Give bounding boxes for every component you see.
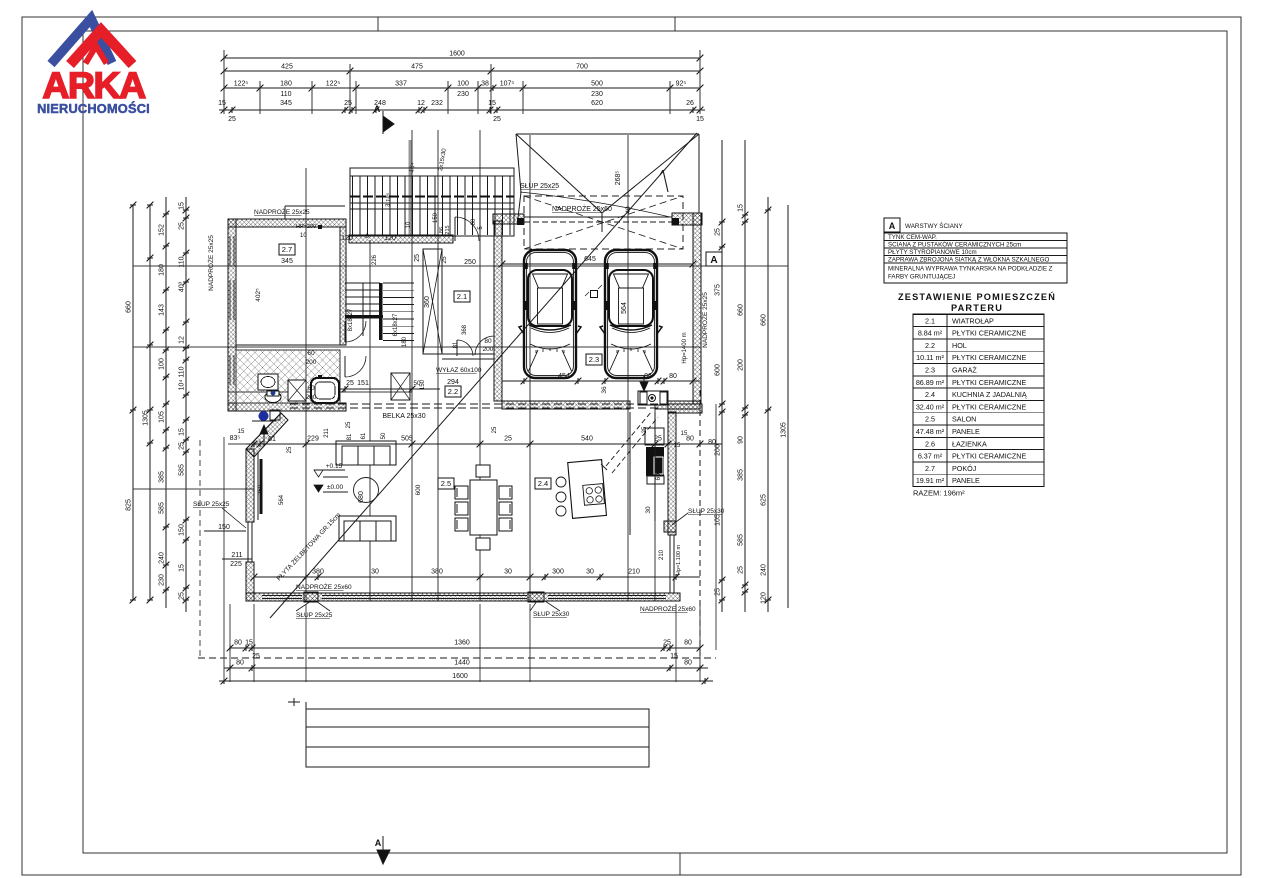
svg-text:15: 15 [696, 116, 704, 123]
svg-text:PANELE: PANELE [952, 476, 980, 485]
svg-text:ZESTAWIENIE POMIESZCZEŃ: ZESTAWIENIE POMIESZCZEŃ [898, 291, 1056, 302]
svg-text:564: 564 [279, 494, 285, 505]
svg-text:25: 25 [287, 446, 293, 453]
svg-text:564: 564 [621, 302, 628, 314]
svg-text:25: 25 [715, 228, 722, 236]
svg-text:180: 180 [280, 81, 292, 88]
svg-text:SALON: SALON [952, 415, 976, 424]
svg-text:SŁUP 25x30: SŁUP 25x30 [533, 611, 570, 618]
svg-text:240: 240 [761, 564, 768, 576]
svg-text:210: 210 [659, 549, 665, 560]
svg-text:105: 105 [715, 514, 722, 526]
svg-text:25: 25 [228, 116, 236, 123]
svg-text:80: 80 [669, 373, 677, 380]
svg-text:15: 15 [488, 100, 496, 107]
svg-text:505: 505 [401, 436, 413, 443]
svg-text:211: 211 [231, 552, 242, 559]
svg-text:Hp=1.100 m: Hp=1.100 m [676, 545, 682, 576]
svg-text:380: 380 [431, 569, 443, 576]
svg-text:120: 120 [384, 235, 396, 242]
svg-text:25: 25 [654, 436, 662, 443]
svg-text:337: 337 [395, 81, 407, 88]
svg-text:2.7: 2.7 [282, 245, 292, 254]
svg-text:232: 232 [431, 100, 443, 107]
svg-text:2.1: 2.1 [925, 316, 935, 325]
svg-text:38: 38 [481, 81, 489, 88]
svg-text:12: 12 [417, 100, 425, 107]
svg-text:12: 12 [179, 336, 186, 344]
svg-text:A: A [889, 221, 896, 231]
svg-text:WIATROŁAP: WIATROŁAP [952, 316, 994, 325]
svg-text:HOL: HOL [952, 341, 967, 350]
svg-text:385: 385 [159, 471, 166, 483]
svg-text:80: 80 [708, 439, 716, 446]
svg-text:61: 61 [361, 432, 367, 439]
svg-text:240: 240 [159, 552, 166, 564]
svg-text:WYŁAZ 60x100: WYŁAZ 60x100 [436, 367, 482, 374]
svg-text:WARSTWY ŚCIANY: WARSTWY ŚCIANY [905, 221, 964, 230]
svg-text:2.5: 2.5 [441, 479, 451, 488]
svg-text:15: 15 [179, 564, 186, 572]
svg-text:15: 15 [245, 640, 253, 647]
svg-text:10.11 m²: 10.11 m² [916, 353, 944, 362]
svg-text:402⁵: 402⁵ [255, 288, 262, 302]
svg-text:80: 80 [684, 660, 692, 667]
svg-text:2.3: 2.3 [589, 355, 599, 364]
svg-text:PŁYTKI CERAMICZNE: PŁYTKI CERAMICZNE [952, 353, 1026, 362]
svg-text:SŁUP 25x25: SŁUP 25x25 [193, 501, 230, 508]
svg-text:PARTERU: PARTERU [951, 303, 1003, 313]
svg-text:680: 680 [358, 491, 365, 503]
svg-text:25: 25 [346, 421, 352, 428]
svg-text:FARBY GRUNTUJĄCEJ: FARBY GRUNTUJĄCEJ [888, 274, 955, 281]
svg-text:500: 500 [591, 81, 603, 88]
svg-text:30: 30 [371, 569, 379, 576]
svg-text:POKÓJ: POKÓJ [952, 464, 977, 473]
svg-text:15: 15 [670, 653, 678, 660]
svg-text:47.48 m²: 47.48 m² [916, 427, 945, 436]
svg-text:226: 226 [372, 254, 378, 265]
svg-text:25: 25 [738, 566, 745, 574]
svg-text:25: 25 [492, 426, 498, 433]
svg-text:300: 300 [552, 569, 564, 576]
svg-text:25: 25 [663, 640, 671, 647]
svg-text:120: 120 [761, 592, 768, 604]
svg-text:36: 36 [601, 386, 608, 394]
svg-text:2.5: 2.5 [925, 415, 935, 424]
svg-text:200: 200 [738, 359, 745, 371]
svg-text:540: 540 [581, 436, 593, 443]
svg-text:60: 60 [307, 350, 315, 357]
svg-text:6x18x27: 6x18x27 [393, 313, 399, 336]
svg-text:600: 600 [655, 469, 662, 480]
svg-text:110: 110 [179, 366, 186, 377]
svg-text:1305: 1305 [143, 410, 150, 426]
svg-text:25: 25 [346, 380, 354, 387]
svg-text:NADPROŻE 25x25: NADPROŻE 25x25 [700, 292, 709, 348]
svg-text:150: 150 [420, 379, 426, 390]
svg-text:825: 825 [126, 499, 133, 511]
svg-text:625: 625 [761, 494, 768, 506]
svg-text:10: 10 [300, 233, 307, 239]
svg-text:2.2: 2.2 [925, 341, 935, 350]
svg-text:25: 25 [179, 592, 186, 600]
svg-text:26: 26 [686, 100, 694, 107]
svg-text:122⁵: 122⁵ [234, 81, 249, 88]
svg-text:60: 60 [471, 218, 477, 225]
svg-text:10: 10 [406, 221, 412, 228]
svg-text:2.2: 2.2 [448, 387, 458, 396]
svg-text:620: 620 [591, 100, 603, 107]
svg-text:200: 200 [306, 394, 317, 401]
svg-text:2.4: 2.4 [925, 390, 935, 399]
svg-text:25: 25 [252, 653, 260, 660]
svg-text:PANELE: PANELE [952, 427, 980, 436]
svg-text:151: 151 [357, 380, 369, 387]
svg-text:2.7: 2.7 [925, 464, 935, 473]
svg-text:107⁵: 107⁵ [500, 81, 515, 88]
svg-text:25: 25 [179, 222, 186, 230]
svg-text:150: 150 [433, 212, 439, 223]
svg-text:+0.15: +0.15 [326, 463, 343, 470]
svg-text:360: 360 [424, 296, 431, 308]
svg-text:225: 225 [230, 561, 242, 568]
svg-text:660: 660 [761, 314, 768, 326]
svg-text:268⁵: 268⁵ [615, 171, 622, 186]
svg-text:SŁUP 25x30: SŁUP 25x30 [688, 508, 725, 515]
svg-text:122⁵: 122⁵ [326, 81, 341, 88]
svg-text:230: 230 [591, 91, 603, 98]
svg-text:25: 25 [715, 588, 722, 596]
svg-text:100: 100 [457, 81, 469, 88]
svg-text:200: 200 [483, 346, 494, 353]
svg-text:NADPROŻE 25x25: NADPROŻE 25x25 [254, 207, 310, 216]
svg-text:200: 200 [306, 359, 317, 366]
svg-text:359: 359 [258, 484, 264, 495]
svg-text:385: 385 [738, 469, 745, 481]
svg-text:80: 80 [684, 640, 692, 647]
svg-text:±0.00: ±0.00 [327, 484, 344, 491]
svg-text:1305: 1305 [781, 422, 788, 438]
svg-text:ŁAZIENKA: ŁAZIENKA [952, 439, 987, 448]
svg-text:PŁYTKI CERAMICZNE: PŁYTKI CERAMICZNE [952, 378, 1026, 387]
svg-text:SŁUP 25x25: SŁUP 25x25 [520, 183, 559, 190]
svg-text:PŁYTKI CERAMICZNE: PŁYTKI CERAMICZNE [952, 329, 1026, 338]
svg-text:120: 120 [341, 235, 353, 242]
svg-text:81: 81 [347, 433, 353, 440]
svg-text:700: 700 [576, 64, 588, 71]
svg-text:345: 345 [280, 100, 292, 107]
svg-text:15: 15 [238, 429, 245, 435]
svg-text:585: 585 [159, 502, 166, 514]
svg-text:215: 215 [445, 225, 451, 234]
svg-text:25: 25 [414, 254, 421, 262]
svg-text:585: 585 [179, 464, 186, 476]
svg-text:NADPROŻE 25x60: NADPROŻE 25x60 [552, 204, 612, 213]
svg-text:15: 15 [681, 431, 688, 437]
svg-text:NIERUCHOMOŚCI: NIERUCHOMOŚCI [37, 101, 150, 116]
svg-text:32.40 m²: 32.40 m² [916, 402, 945, 411]
svg-text:90: 90 [738, 436, 745, 444]
svg-text:345: 345 [281, 258, 293, 265]
svg-text:152: 152 [159, 224, 166, 236]
svg-text:375: 375 [715, 284, 722, 296]
svg-text:600: 600 [415, 484, 422, 495]
svg-text:180: 180 [402, 336, 408, 347]
svg-text:15: 15 [179, 202, 186, 210]
svg-text:110: 110 [280, 91, 291, 98]
svg-text:3.18⁵: 3.18⁵ [384, 192, 392, 207]
svg-text:425: 425 [281, 64, 293, 71]
svg-text:368: 368 [462, 324, 468, 335]
svg-text:TYNK CEM-WAP.: TYNK CEM-WAP. [888, 234, 937, 241]
svg-text:6.37 m²: 6.37 m² [918, 452, 943, 461]
svg-text:8x18x27: 8x18x27 [348, 308, 354, 331]
svg-text:86.89 m²: 86.89 m² [916, 378, 945, 387]
svg-text:380: 380 [312, 569, 324, 576]
svg-text:25: 25 [642, 426, 648, 433]
svg-text:ARKA: ARKA [42, 64, 146, 106]
svg-text:25: 25 [493, 116, 501, 123]
svg-text:2.4: 2.4 [538, 479, 548, 488]
svg-text:15: 15 [218, 100, 226, 107]
svg-text:80: 80 [236, 660, 244, 667]
svg-text:PŁYTKI CERAMICZNE: PŁYTKI CERAMICZNE [952, 402, 1026, 411]
svg-text:A: A [374, 104, 381, 114]
svg-text:105: 105 [159, 411, 166, 423]
svg-text:NADPROŻE 25x60: NADPROŻE 25x60 [640, 604, 696, 613]
svg-text:83⁵: 83⁵ [230, 435, 241, 442]
svg-text:15: 15 [738, 204, 745, 212]
svg-text:100: 100 [159, 358, 166, 370]
svg-text:30: 30 [504, 569, 512, 576]
svg-text:475: 475 [411, 64, 423, 71]
svg-text:PŁYTY STYROPIANOWE 10cm: PŁYTY STYROPIANOWE 10cm [888, 249, 977, 256]
svg-text:2.6: 2.6 [925, 439, 935, 448]
svg-text:15: 15 [179, 428, 186, 436]
svg-text:10⁴: 10⁴ [179, 380, 186, 391]
svg-text:150: 150 [179, 524, 186, 536]
svg-text:8.84 m²: 8.84 m² [918, 329, 943, 338]
svg-text:250: 250 [464, 259, 476, 266]
svg-text:MINERALNA WYPRAWA TYNKARSKA NA: MINERALNA WYPRAWA TYNKARSKA NA PODKŁADZI… [888, 266, 1053, 273]
svg-text:NADPROŻE 25x25: NADPROŻE 25x25 [206, 235, 215, 291]
svg-text:30: 30 [645, 506, 652, 514]
svg-text:NADPROŻE 25x60: NADPROŻE 25x60 [296, 582, 352, 591]
svg-text:ŚCIANA Z PUSTAKÓW CERAMICZNYCH: ŚCIANA Z PUSTAKÓW CERAMICZNYCH 25cm [888, 241, 1021, 249]
svg-text:80: 80 [484, 338, 492, 345]
svg-text:60: 60 [307, 385, 315, 392]
svg-text:1440: 1440 [454, 660, 470, 667]
svg-text:585: 585 [738, 534, 745, 546]
svg-text:ZAPRAWA ZBROJONA SIATKĄ Z WŁÓK: ZAPRAWA ZBROJONA SIATKĄ Z WŁÓKNA SZKALNE… [888, 257, 1050, 264]
svg-text:230: 230 [457, 91, 469, 98]
svg-text:25: 25 [441, 256, 448, 264]
svg-text:GARAŻ: GARAŻ [952, 366, 977, 375]
svg-text:660: 660 [738, 304, 745, 316]
svg-text:1600: 1600 [449, 51, 465, 58]
svg-text:1600: 1600 [452, 673, 468, 680]
svg-text:25: 25 [179, 442, 186, 450]
svg-text:25: 25 [344, 100, 352, 107]
svg-text:81: 81 [453, 341, 459, 348]
svg-text:600: 600 [715, 364, 722, 376]
svg-text:1360: 1360 [454, 640, 470, 647]
svg-text:229: 229 [307, 436, 319, 443]
svg-text:92⁵: 92⁵ [676, 81, 687, 88]
svg-text:19.91 m²: 19.91 m² [916, 476, 945, 485]
svg-text:294: 294 [447, 379, 459, 386]
svg-text:660: 660 [126, 301, 133, 313]
svg-text:A: A [710, 255, 717, 266]
svg-text:A: A [375, 838, 382, 848]
svg-text:Hp=1400 m: Hp=1400 m [682, 332, 688, 363]
svg-text:30: 30 [586, 569, 594, 576]
svg-text:SŁUP 25x25: SŁUP 25x25 [296, 612, 333, 619]
svg-text:2.3: 2.3 [925, 366, 935, 375]
svg-text:PŁYTKI CERAMICZNE: PŁYTKI CERAMICZNE [952, 452, 1026, 461]
svg-text:80: 80 [234, 640, 242, 647]
svg-text:211: 211 [324, 428, 330, 438]
svg-text:HP=200: HP=200 [296, 224, 316, 230]
svg-text:BELKA 25x30: BELKA 25x30 [382, 413, 425, 420]
svg-text:230: 230 [159, 574, 166, 586]
svg-text:KUCHNIA Z JADALNIĄ: KUCHNIA Z JADALNIĄ [952, 390, 1027, 399]
svg-text:50: 50 [381, 432, 387, 439]
svg-text:2.1: 2.1 [457, 292, 467, 301]
svg-text:RAZEM: 196m²: RAZEM: 196m² [913, 489, 965, 498]
svg-text:40³: 40³ [179, 281, 186, 292]
svg-text:150: 150 [218, 524, 230, 531]
svg-text:143: 143 [159, 304, 166, 316]
svg-text:210: 210 [628, 569, 640, 576]
svg-text:25: 25 [504, 436, 512, 443]
